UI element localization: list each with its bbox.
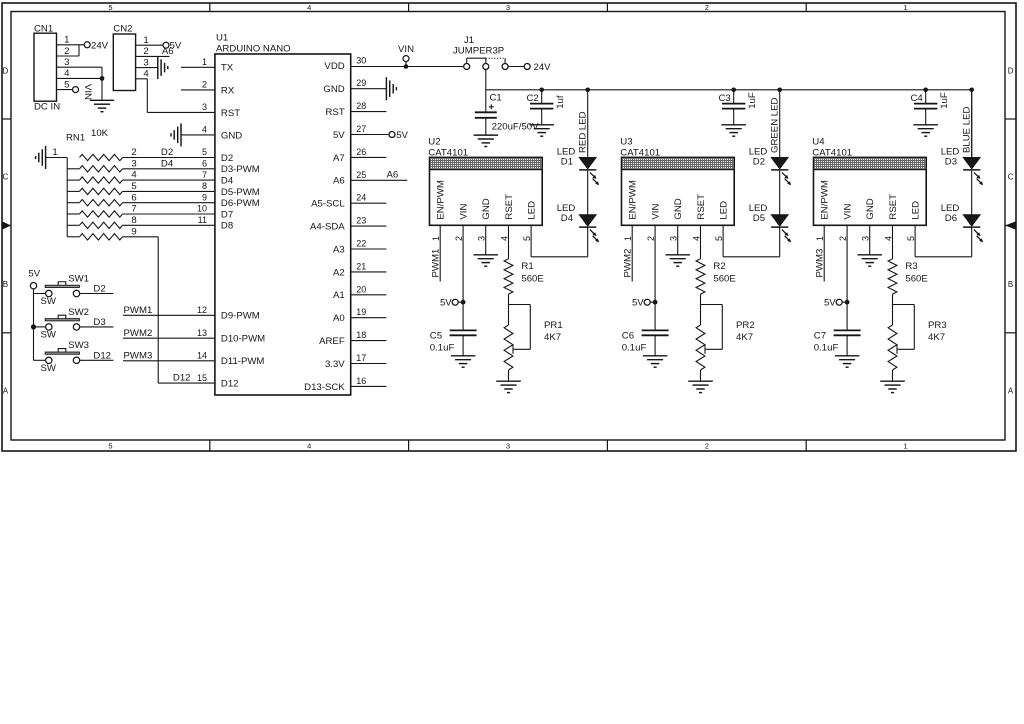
svg-text:C: C [3, 173, 9, 182]
U1 right pin numbers [356, 55, 366, 386]
node junction SW2 tap [31, 324, 36, 329]
svg-text:7: 7 [202, 170, 207, 180]
ground at U1 pin29 [386, 77, 396, 100]
wire LED D2 to LED D5 [779, 170, 781, 215]
wire U3 pin2 VIN to 5V [654, 225, 656, 330]
svg-text:D4: D4 [561, 213, 574, 224]
svg-text:3: 3 [64, 57, 69, 68]
wire LED D4 to U2 pin5 [531, 225, 588, 256]
U2 pin names [436, 180, 538, 219]
svg-text:1: 1 [64, 35, 69, 46]
svg-text:A4-SDA: A4-SDA [310, 222, 345, 233]
capacitor C4 1uf [911, 90, 951, 125]
resistor R2 560E [696, 259, 736, 294]
net label D4 [161, 159, 174, 170]
svg-text:ARDUINO NANO: ARDUINO NANO [216, 44, 291, 55]
resistor RN1 element 6 [67, 204, 136, 218]
svg-text:5V: 5V [28, 268, 40, 279]
wire U2 pin1 net PWM1 [439, 225, 441, 281]
wire RN1 pin7 to U1 [123, 213, 215, 215]
wire CN1 pin3 [57, 66, 103, 68]
svg-text:5: 5 [131, 181, 136, 192]
svg-text:JUMPER3P: JUMPER3P [453, 46, 504, 57]
svg-text:DC IN: DC IN [34, 102, 60, 113]
svg-text:5V: 5V [396, 130, 408, 141]
svg-text:PR2: PR2 [736, 320, 755, 331]
capacitor C1 220uF/50V [475, 93, 539, 136]
svg-text:EN/PWM: EN/PWM [820, 180, 831, 219]
wire PR3 to ground [892, 370, 894, 381]
LED D1 [557, 147, 600, 186]
terminal VIN at CN1 [73, 84, 93, 100]
svg-text:LED: LED [718, 201, 729, 220]
capacitor C2 1uf [527, 90, 567, 125]
svg-text:19: 19 [356, 307, 366, 317]
border frame outer [2, 3, 1016, 451]
svg-text:10: 10 [197, 204, 207, 214]
resistor RN1 element 2 [67, 158, 136, 172]
svg-text:A: A [3, 386, 9, 395]
wire LED D3 to LED D6 [971, 170, 973, 215]
svg-text:A3: A3 [333, 244, 345, 255]
svg-text:RN1: RN1 [66, 133, 85, 144]
svg-text:1: 1 [623, 236, 633, 241]
svg-text:D1: D1 [561, 157, 573, 168]
svg-text:SW3: SW3 [68, 340, 89, 351]
svg-text:PWM2: PWM2 [623, 249, 634, 278]
svg-text:VIN: VIN [458, 204, 469, 220]
wire SW3 to net D12 [80, 359, 114, 361]
CN2 pin numbers [143, 35, 149, 80]
svg-text:1: 1 [904, 442, 908, 451]
svg-text:3: 3 [131, 158, 136, 169]
svg-text:4: 4 [307, 442, 311, 451]
wire +24V rail [486, 90, 972, 158]
terminal 5V at U1 pin27 [351, 130, 409, 141]
svg-text:SW: SW [41, 296, 57, 307]
svg-text:2: 2 [202, 80, 207, 90]
svg-text:3: 3 [506, 3, 510, 12]
svg-text:3: 3 [669, 236, 679, 241]
ground at C5 [451, 356, 476, 367]
svg-text:1uf: 1uf [555, 95, 566, 109]
resistor RN1 element 8 [67, 226, 136, 240]
svg-text:RST: RST [221, 108, 240, 119]
terminal 5V at U2 [440, 298, 463, 309]
net label PWM3 at U4 [815, 249, 826, 278]
LED D2 [749, 147, 792, 186]
svg-text:5: 5 [202, 147, 207, 157]
wire CN2 pin4 to U1 RST [136, 79, 215, 113]
frame column ticks top [210, 3, 806, 12]
svg-text:4K7: 4K7 [544, 332, 561, 343]
border frame inner [11, 12, 1005, 441]
svg-text:RED LED: RED LED [578, 111, 589, 153]
svg-text:CN1: CN1 [34, 24, 53, 35]
svg-text:D13-SCK: D13-SCK [304, 382, 345, 393]
resistor RN1 element 7 [67, 215, 136, 229]
svg-text:C5: C5 [430, 331, 442, 342]
frame center arrow right [1005, 221, 1016, 229]
U1 left pin numbers [197, 57, 207, 383]
svg-text:4: 4 [307, 3, 311, 12]
svg-text:5: 5 [714, 236, 724, 241]
svg-text:PWM2: PWM2 [124, 328, 153, 339]
CN1 pin numbers [64, 35, 70, 91]
wire net PWM3 to U1 [123, 360, 215, 362]
net label GREEN LED rotated [770, 97, 781, 153]
wire RN1 pin1 [46, 147, 68, 158]
svg-text:4: 4 [499, 236, 509, 241]
svg-text:1: 1 [52, 147, 57, 158]
svg-text:2: 2 [705, 3, 709, 12]
node junction rail at GREEN LED branch [777, 88, 782, 93]
svg-text:4: 4 [131, 170, 137, 181]
wire RN1 pin6 to U1 [123, 202, 215, 204]
frame column ticks bottom [210, 440, 806, 451]
wire U1 pin2 RX stub [181, 89, 215, 91]
wire R2 to PR2 [700, 294, 702, 325]
U1 left pin names [221, 63, 265, 390]
node junction CN1 pins3-4 [100, 67, 105, 100]
ground at C6 [643, 356, 668, 367]
wire rail to LED D3 [971, 90, 973, 158]
svg-text:D5: D5 [753, 213, 765, 224]
LED D6 [941, 203, 984, 242]
node junction rail at C2 [539, 88, 544, 93]
U3 pin names [628, 180, 730, 219]
terminal 5V at switches [28, 268, 40, 289]
svg-text:A7: A7 [333, 153, 345, 164]
capacitor C7 0.1uF [814, 330, 861, 355]
svg-text:560E: 560E [905, 273, 927, 284]
svg-text:1uF: 1uF [939, 92, 950, 109]
svg-text:17: 17 [356, 353, 366, 363]
svg-text:D3-PWM: D3-PWM [221, 164, 260, 175]
svg-text:11: 11 [198, 215, 207, 225]
svg-text:18: 18 [356, 330, 366, 340]
svg-text:VIN: VIN [82, 84, 93, 100]
svg-text:D6: D6 [945, 213, 957, 224]
svg-text:EN/PWM: EN/PWM [436, 180, 447, 219]
net label PWM2 at U3 [623, 249, 634, 278]
switch SW3 [41, 340, 89, 374]
wire U3 pin3 GND [677, 225, 679, 255]
wire U1 VDD to J1 [351, 66, 464, 68]
wire RN1 pin3 to U1 [123, 168, 215, 170]
frame row ticks right [1005, 119, 1016, 333]
svg-text:GND: GND [673, 198, 684, 219]
net label A6 at U1 [387, 170, 399, 181]
svg-text:30: 30 [356, 55, 366, 65]
svg-text:22: 22 [356, 239, 366, 249]
IC U3 CAT4101 [620, 136, 734, 225]
wire 5V bus to switches [33, 289, 35, 360]
svg-text:5: 5 [108, 3, 112, 12]
svg-text:3: 3 [202, 102, 207, 112]
wire U4 pin3 GND [869, 225, 871, 255]
terminal VIN [398, 44, 414, 67]
svg-text:4K7: 4K7 [928, 332, 945, 343]
ground at C3 [721, 125, 746, 136]
net label D3 at SW2 [93, 317, 105, 328]
svg-text:2: 2 [705, 442, 709, 451]
ground at PR2 [688, 381, 713, 392]
svg-text:D: D [1008, 66, 1014, 75]
svg-text:D12: D12 [221, 379, 239, 390]
svg-text:SW2: SW2 [68, 307, 89, 318]
wire J1 pin3 to 24V terminal [508, 66, 525, 68]
svg-text:D4: D4 [161, 159, 174, 170]
wire U1 pin1 TX stub [181, 66, 215, 68]
wire RN1 common bus [66, 158, 68, 237]
ground at C7 [835, 356, 860, 367]
ground at U3 pin3 [665, 255, 690, 266]
svg-text:RX: RX [221, 85, 235, 96]
node junction rail at C3 [731, 88, 736, 93]
terminal 5V at U4 [824, 298, 847, 309]
svg-text:D12: D12 [93, 351, 111, 362]
svg-text:GND: GND [865, 198, 876, 219]
svg-text:RST: RST [326, 107, 345, 118]
svg-text:12: 12 [197, 305, 207, 315]
frame center arrow left [2, 221, 11, 229]
svg-text:0.1uF: 0.1uF [622, 342, 647, 353]
terminal 24V at J1 [524, 62, 551, 73]
svg-text:D2: D2 [221, 153, 233, 164]
wire LED D5 to U3 pin5 [723, 225, 780, 256]
wire U3 pin1 net PWM2 [631, 225, 633, 281]
svg-text:D3: D3 [945, 157, 957, 168]
svg-text:RSET: RSET [888, 194, 899, 220]
wire RN1 pin5 to U1 [123, 190, 215, 192]
svg-text:5V: 5V [632, 298, 644, 309]
IC U4 CAT4101 [812, 136, 926, 225]
svg-text:28: 28 [356, 101, 366, 111]
svg-text:D9-PWM: D9-PWM [221, 311, 260, 322]
potentiometer PR1 4K7 [504, 305, 563, 371]
svg-text:D: D [3, 66, 9, 75]
resistor network RN1 10K [66, 128, 109, 144]
svg-text:U2: U2 [428, 136, 440, 147]
resistor RN1 element 4 [67, 181, 136, 195]
resistor R1 560E [504, 259, 544, 294]
svg-text:D7: D7 [221, 209, 233, 220]
node junction 5V tap U3 [653, 300, 658, 305]
svg-text:B: B [1008, 280, 1013, 289]
svg-text:A1: A1 [333, 290, 345, 301]
svg-text:2: 2 [143, 46, 148, 57]
wire rail to LED D2 [779, 90, 781, 158]
svg-text:7: 7 [131, 204, 136, 215]
wire LED D6 to U4 pin5 [915, 225, 972, 256]
svg-text:3: 3 [477, 236, 487, 241]
svg-text:LED: LED [526, 201, 537, 220]
node junction rail at BLUE LED branch [969, 88, 974, 93]
capacitor C5 0.1uF [430, 330, 477, 355]
LED D4 [557, 203, 600, 242]
frame row labels left [3, 66, 9, 395]
svg-text:VIN: VIN [650, 204, 661, 220]
node junction VIN [404, 64, 409, 69]
svg-text:4: 4 [883, 236, 893, 241]
wire PR1 to ground [508, 370, 510, 381]
wire RN1 pin4 to U1 [123, 179, 215, 181]
wire net PWM2 to U1 [123, 337, 215, 339]
connector CN1 [34, 24, 60, 113]
wire net PWM1 to U1 [123, 314, 215, 316]
svg-text:2: 2 [64, 46, 69, 57]
svg-text:4: 4 [143, 69, 149, 80]
LED D3 [941, 147, 984, 186]
svg-text:2: 2 [454, 236, 464, 241]
svg-text:R1: R1 [521, 261, 533, 272]
svg-text:CN2: CN2 [113, 23, 132, 34]
svg-text:U1: U1 [216, 33, 228, 44]
svg-text:25: 25 [356, 170, 366, 180]
capacitor C6 0.1uF [622, 330, 669, 355]
svg-text:6: 6 [202, 159, 207, 169]
U3 pin numbers [623, 236, 724, 241]
svg-text:5V: 5V [440, 298, 452, 309]
wire U1 pin25 net A6 [351, 179, 408, 181]
svg-text:BLUE LED: BLUE LED [962, 107, 973, 153]
svg-text:6: 6 [131, 192, 136, 203]
wire U4 pin4 RSET [892, 225, 894, 258]
U2 pin numbers [431, 236, 532, 241]
svg-text:C4: C4 [911, 93, 924, 104]
svg-text:8: 8 [202, 181, 207, 191]
ground at C4 [913, 125, 938, 136]
U4 pin names [820, 180, 922, 219]
wire LED D1 to LED D4 [587, 170, 589, 215]
svg-text:D5-PWM: D5-PWM [221, 187, 260, 198]
wire U2 pin2 VIN to 5V [462, 225, 464, 330]
svg-text:SW1: SW1 [68, 273, 89, 284]
node junction rail at RED LED branch [585, 88, 590, 93]
svg-text:PWM1: PWM1 [431, 249, 442, 278]
svg-text:C2: C2 [527, 93, 539, 104]
terminal 5V at U3 [632, 298, 655, 309]
wire rail to LED D1 [587, 90, 589, 158]
svg-text:GND: GND [481, 198, 492, 219]
ground at C2 [529, 125, 554, 136]
svg-text:GND: GND [323, 84, 344, 95]
svg-text:4: 4 [64, 68, 70, 79]
svg-text:GND: GND [221, 130, 242, 141]
svg-text:13: 13 [197, 328, 207, 338]
U1 right pin stub wires [351, 89, 387, 387]
svg-text:9: 9 [131, 226, 136, 237]
wire CN1 pin4 [57, 77, 103, 79]
svg-text:24V: 24V [534, 62, 552, 73]
svg-text:RSET: RSET [696, 194, 707, 220]
svg-text:3.3V: 3.3V [325, 359, 345, 370]
svg-text:PR1: PR1 [544, 320, 563, 331]
svg-text:4K7: 4K7 [736, 332, 753, 343]
wire U2 pin3 GND [485, 225, 487, 255]
potentiometer PR3 4K7 [888, 305, 947, 371]
svg-text:3: 3 [506, 442, 510, 451]
svg-text:1: 1 [815, 236, 825, 241]
wire CN2 pin3 to ground [136, 67, 158, 69]
svg-text:RSET: RSET [504, 194, 515, 220]
frame column labels bottom [108, 442, 907, 451]
svg-text:14: 14 [197, 351, 207, 361]
svg-text:LED: LED [910, 201, 921, 220]
svg-text:16: 16 [356, 376, 366, 386]
svg-text:EN/PWM: EN/PWM [628, 180, 639, 219]
svg-text:R3: R3 [905, 261, 917, 272]
svg-text:0.1uF: 0.1uF [430, 342, 455, 353]
net label D2 at SW1 [93, 284, 105, 295]
svg-text:1: 1 [904, 3, 908, 12]
terminal 24V at CN1 [84, 40, 108, 51]
svg-text:10K: 10K [91, 128, 109, 139]
svg-text:VIN: VIN [398, 44, 414, 55]
net label RED LED rotated [578, 111, 589, 153]
net label PWM1 at U2 [431, 249, 442, 278]
svg-text:20: 20 [356, 284, 366, 294]
svg-text:9: 9 [202, 192, 207, 202]
switch SW2 [41, 307, 89, 341]
svg-text:VIN: VIN [842, 204, 853, 220]
resistor RN1 element 3 [67, 170, 137, 184]
svg-text:5V: 5V [333, 130, 345, 141]
net label A6 at CN2 [162, 46, 174, 57]
svg-text:1: 1 [431, 236, 441, 241]
svg-text:A6: A6 [387, 170, 399, 181]
connector CN2 [113, 23, 135, 90]
net label D2 [161, 147, 173, 158]
svg-text:24V: 24V [91, 40, 109, 51]
svg-text:PWM3: PWM3 [815, 249, 826, 278]
wire 5V to SW3 [34, 359, 46, 361]
svg-text:D2: D2 [161, 147, 173, 158]
svg-text:SW: SW [41, 363, 57, 374]
svg-text:U3: U3 [620, 136, 632, 147]
svg-text:1uF: 1uF [747, 92, 758, 109]
svg-text:D11-PWM: D11-PWM [221, 356, 265, 367]
svg-text:2: 2 [646, 236, 656, 241]
ground at RN1 pin1 [36, 146, 46, 169]
svg-text:24: 24 [356, 193, 366, 203]
svg-text:1: 1 [143, 35, 148, 46]
wire R3 to PR3 [892, 294, 894, 325]
svg-text:D6-PWM: D6-PWM [221, 198, 260, 209]
ground at C1 [474, 135, 499, 146]
wire R1 to PR1 [508, 294, 510, 325]
wire CN1 pin2 tie to pin1 [57, 45, 80, 56]
svg-text:A0: A0 [333, 313, 345, 324]
svg-text:D10-PWM: D10-PWM [221, 334, 265, 345]
svg-text:23: 23 [356, 216, 366, 226]
net label D12 at SW3 [93, 351, 111, 362]
svg-text:15: 15 [197, 373, 207, 383]
svg-text:J1: J1 [464, 35, 474, 46]
ground at U2 pin3 [473, 255, 498, 266]
svg-text:3: 3 [143, 57, 148, 68]
ground at PR3 [880, 381, 905, 392]
svg-text:5: 5 [64, 79, 69, 90]
svg-text:A6: A6 [333, 176, 345, 187]
svg-text:R2: R2 [713, 261, 725, 272]
frame row labels right [1008, 66, 1014, 395]
resistor RN1 element 1 [80, 147, 137, 161]
svg-text:D3: D3 [93, 317, 105, 328]
net label BLUE LED rotated [962, 107, 973, 153]
net label PWM2 at U1 [124, 328, 153, 339]
